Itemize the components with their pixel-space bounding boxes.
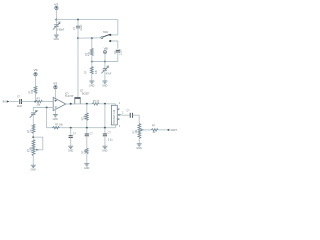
ground GND7 xyxy=(84,164,90,170)
svg-text:C?: C? xyxy=(73,26,76,30)
svg-text:100: 100 xyxy=(84,149,87,154)
svg-text:C?: C? xyxy=(114,50,117,54)
svg-text:GND: GND xyxy=(31,169,37,172)
svg-text:1k: 1k xyxy=(152,131,155,134)
svg-text:R? 10k: R? 10k xyxy=(55,124,63,127)
svg-text:2.2uF: 2.2uF xyxy=(80,24,83,31)
ground GND4 (op-amp) xyxy=(53,115,59,121)
resistor R5 (x=33.3 vertical) xyxy=(27,124,35,137)
resistor R1 (bias 47k vertical) xyxy=(29,86,37,101)
terminal IN xyxy=(3,100,19,104)
svg-text:0.68uF: 0.68uF xyxy=(57,29,65,32)
node junction output a xyxy=(70,103,72,105)
ground GND3 xyxy=(102,81,108,87)
svg-text:3: 3 xyxy=(119,125,121,128)
svg-text:R?: R? xyxy=(152,125,156,128)
svg-text:1M: 1M xyxy=(30,130,33,133)
svg-text:C?: C? xyxy=(106,65,110,68)
wire rail down to transistor xyxy=(77,38,79,97)
node junction pot top xyxy=(32,136,34,138)
power port VS3 (bias) xyxy=(34,68,38,76)
potentiometer R6 (with wiper loop) xyxy=(27,140,39,165)
resistor R7 (series output 47k) xyxy=(92,100,115,105)
capacitor C6 (variable, on x=33.3) xyxy=(30,110,39,124)
svg-text:GND: GND xyxy=(84,167,90,170)
node junction rail / C2 branch xyxy=(77,19,79,21)
node junction feedback tap xyxy=(46,107,48,109)
node junction rail3 c xyxy=(104,127,106,129)
svg-text:GND: GND xyxy=(54,38,60,41)
svg-text:GND: GND xyxy=(102,150,108,153)
wire VS3 to R bias xyxy=(35,76,37,86)
ground GND9 (volume pot) xyxy=(136,144,142,150)
node junction at VS rail xyxy=(55,19,57,21)
wire op-amp output xyxy=(66,103,92,105)
resistor R8 (x=86.8 vertical 100k) xyxy=(81,104,88,128)
terminal OUT xyxy=(167,128,178,132)
svg-text:R? 47: R? 47 xyxy=(93,100,100,103)
power port VB (battery sense) xyxy=(104,46,108,61)
capacitor C3 (polarized, on x=117.8) xyxy=(114,48,122,61)
svg-text:BC557: BC557 xyxy=(82,92,90,95)
wire op-amp ground pin xyxy=(54,108,56,115)
svg-text:IN: IN xyxy=(3,100,6,104)
node junction output c xyxy=(104,103,106,105)
svg-text:VS: VS xyxy=(34,68,38,72)
ground GND5 (pot) xyxy=(31,165,37,171)
svg-text:100k: 100k xyxy=(30,146,33,152)
svg-text:R?: R? xyxy=(85,70,88,74)
svg-text:GND: GND xyxy=(102,84,108,87)
trimmer R9 xyxy=(111,102,124,128)
svg-text:R?: R? xyxy=(37,97,41,100)
wire wiper to C7 xyxy=(122,114,130,116)
ground GND1 xyxy=(54,35,60,41)
resistor R11 (x=86.8 lower) xyxy=(81,148,88,163)
capacitor C2 (on vertical rail x=78) xyxy=(73,20,83,39)
svg-text:2: 2 xyxy=(122,112,124,115)
svg-text:C?: C? xyxy=(73,133,77,136)
switch SW1 xyxy=(101,31,112,42)
node junction rail3 b xyxy=(86,127,88,129)
svg-text:C?: C? xyxy=(90,133,94,136)
wire feedback rail xyxy=(47,108,116,128)
wire pot wiper loop xyxy=(33,137,43,150)
svg-text:10k: 10k xyxy=(36,104,41,107)
svg-text:1: 1 xyxy=(119,102,121,105)
node junction rail2 left xyxy=(91,61,93,63)
capacitor C5 (input coupling) xyxy=(17,96,36,108)
power port VS2 (op-amp supply) xyxy=(53,82,57,99)
svg-text:2.2uF: 2.2uF xyxy=(119,48,122,55)
capacitor C7 (output coupling) xyxy=(126,110,139,118)
capacitor C8 (x=70.7 to gnd) xyxy=(69,128,77,146)
svg-text:VS: VS xyxy=(54,2,58,6)
svg-text:VS: VS xyxy=(53,82,57,86)
potentiometer R12 (volume) xyxy=(132,124,144,144)
node junction rail3 a xyxy=(70,127,72,129)
wire x=104.9 down xyxy=(104,104,106,128)
ground GND6 xyxy=(68,146,74,152)
svg-text:47uF: 47uF xyxy=(106,73,112,76)
wire rail2 node xyxy=(92,61,118,63)
wire switch bottom contact down xyxy=(111,41,118,49)
wire VS to rail xyxy=(55,10,57,20)
resistor R2 (divider top, x=91.8) xyxy=(85,38,93,61)
capacitor C1 (variable, 0.68uF) xyxy=(53,20,65,35)
wire switch top contact to rail xyxy=(111,34,118,36)
op-amp U1 xyxy=(53,93,74,111)
svg-text:GND: GND xyxy=(89,84,95,87)
svg-text:C?: C? xyxy=(108,131,112,134)
resistor R13 (series out 1k) xyxy=(151,125,167,134)
wire top rail xyxy=(56,20,117,35)
svg-text:TL072P: TL072P xyxy=(65,95,74,98)
svg-text:C?: C? xyxy=(126,110,130,113)
svg-text:2.2u: 2.2u xyxy=(108,138,113,141)
transistor Q1 xyxy=(74,90,90,104)
svg-text:10uF: 10uF xyxy=(17,105,23,108)
svg-text:PRESET 10k: PRESET 10k xyxy=(113,109,116,124)
wire inverting input xyxy=(33,108,53,112)
resistor R4 (series input 10k) xyxy=(35,97,53,106)
node junction input xyxy=(34,101,36,103)
ground GND8 xyxy=(102,146,108,152)
svg-text:GND: GND xyxy=(136,147,142,150)
svg-text:C?: C? xyxy=(58,22,62,25)
svg-text:C?: C? xyxy=(17,96,21,99)
svg-text:SW1: SW1 xyxy=(103,31,109,34)
resistor R3 (divider bottom, x=91.8) xyxy=(85,62,98,81)
svg-text:47k: 47k xyxy=(95,69,98,74)
wire C7 to volume pot xyxy=(138,115,140,123)
resistor R10 (feedback) xyxy=(52,124,63,129)
wire rail to switch pole xyxy=(78,37,101,39)
svg-text:GND: GND xyxy=(68,150,74,153)
svg-text:OUT: OUT xyxy=(171,128,178,132)
svg-text:C?: C? xyxy=(35,110,39,113)
wire wiper to out resistor xyxy=(144,129,151,131)
power port VS (top-left supply) xyxy=(54,2,58,9)
node junction divider branch xyxy=(91,37,93,39)
svg-text:GND: GND xyxy=(53,118,59,121)
node junction output b xyxy=(86,103,88,105)
capacitor C9 (x=86.8) xyxy=(85,128,94,149)
svg-text:VB: VB xyxy=(104,46,108,50)
capacitor C10 (x=104.9, 2.2u) xyxy=(103,128,113,146)
ground GND2 xyxy=(89,81,95,87)
node junction rail2 mid xyxy=(104,61,106,63)
capacitor C4 (variable 47uF, x=104.9) xyxy=(101,62,112,81)
svg-text:100k: 100k xyxy=(84,114,87,120)
node junction rail2 at x=78 xyxy=(77,37,79,39)
